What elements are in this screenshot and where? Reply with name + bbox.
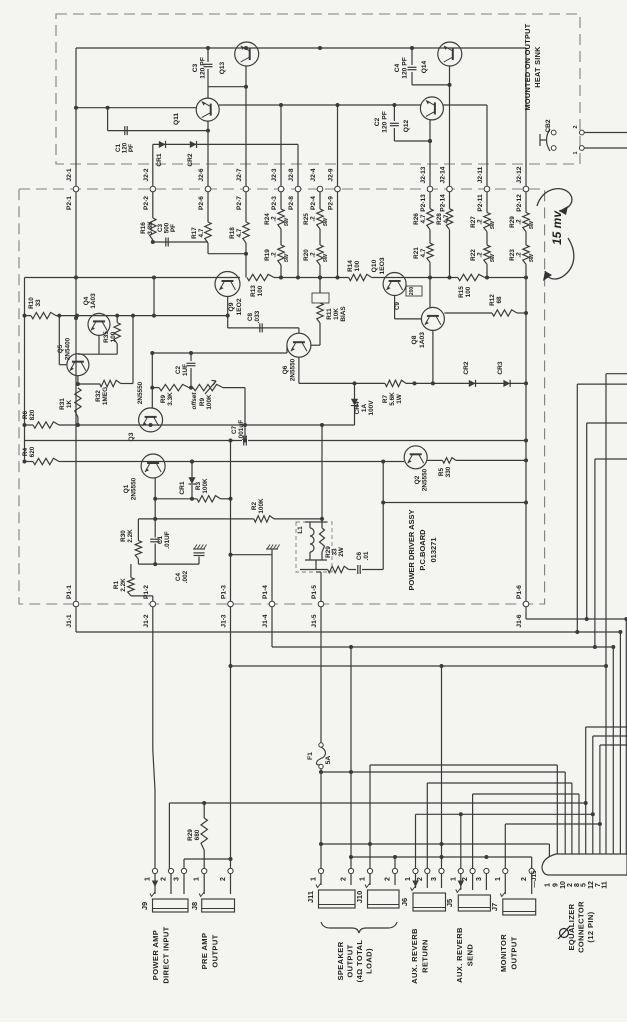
svg-text:CR3: CR3 xyxy=(497,361,504,375)
svg-text:Q13: Q13 xyxy=(219,61,226,74)
svg-text:R4: R4 xyxy=(22,447,29,456)
svg-text:R29: R29 xyxy=(187,829,194,841)
svg-text:BIAS: BIAS xyxy=(340,306,347,322)
svg-text:R26: R26 xyxy=(413,213,420,225)
svg-text:J6: J6 xyxy=(400,898,409,906)
svg-text:OUTPUT: OUTPUT xyxy=(346,944,355,977)
svg-text:CR4: CR4 xyxy=(354,401,361,414)
svg-text:620: 620 xyxy=(29,446,36,457)
svg-text:R1: R1 xyxy=(113,580,120,589)
svg-text:J2-12: J2-12 xyxy=(516,166,523,183)
svg-text:CR1: CR1 xyxy=(179,481,186,495)
svg-text:1EO3: 1EO3 xyxy=(379,257,386,274)
svg-text:Q4: Q4 xyxy=(83,296,90,305)
svg-text:offset: offset xyxy=(191,392,198,410)
svg-text:9: 9 xyxy=(552,883,559,887)
svg-text:J2-11: J2-11 xyxy=(477,166,484,183)
svg-text:4.7: 4.7 xyxy=(443,214,450,223)
svg-text:3.3K: 3.3K xyxy=(147,221,154,235)
svg-text:Q9: Q9 xyxy=(228,302,235,311)
svg-text:HEAT SINK: HEAT SINK xyxy=(533,46,542,88)
svg-text:P2-4: P2-4 xyxy=(310,196,317,210)
svg-text:1MEG: 1MEG xyxy=(102,387,109,405)
svg-text:CB2: CB2 xyxy=(545,119,552,133)
svg-text:J2-3: J2-3 xyxy=(271,168,278,182)
svg-text:.033: .033 xyxy=(254,310,261,323)
svg-text:R18: R18 xyxy=(229,227,236,239)
svg-text:P2-14: P2-14 xyxy=(440,194,447,212)
svg-text:J2-14: J2-14 xyxy=(440,166,447,183)
svg-text:J10: J10 xyxy=(355,891,364,904)
svg-text:1A03: 1A03 xyxy=(90,293,97,309)
svg-text:J1-1: J1-1 xyxy=(66,614,73,628)
svg-text:P2-1: P2-1 xyxy=(66,196,73,210)
svg-text:R30: R30 xyxy=(120,530,127,542)
svg-text:3: 3 xyxy=(476,877,483,881)
svg-text:J1-6: J1-6 xyxy=(516,614,523,628)
svg-text:2: 2 xyxy=(220,877,227,881)
svg-text:C4: C4 xyxy=(394,63,401,72)
svg-text:J2-6: J2-6 xyxy=(198,168,205,182)
svg-text:C9: C9 xyxy=(394,301,401,310)
svg-text:820: 820 xyxy=(29,409,36,420)
svg-text:J1-2: J1-2 xyxy=(143,614,150,628)
svg-text:Q12: Q12 xyxy=(403,119,410,132)
svg-text:P2-9: P2-9 xyxy=(328,196,335,210)
svg-text:R7: R7 xyxy=(382,394,389,403)
svg-text:1: 1 xyxy=(311,877,318,881)
svg-text:Q11: Q11 xyxy=(173,113,180,125)
svg-text:1: 1 xyxy=(145,877,152,881)
svg-text:5W: 5W xyxy=(323,217,329,226)
svg-text:1W: 1W xyxy=(396,393,403,404)
svg-text:P1-5: P1-5 xyxy=(311,585,318,599)
svg-text:P2-2: P2-2 xyxy=(143,196,150,210)
svg-text:J2-7: J2-7 xyxy=(236,168,243,182)
svg-text:.2: .2 xyxy=(271,252,278,258)
svg-text:—J15: —J15 xyxy=(531,870,538,888)
svg-text:R35: R35 xyxy=(103,331,110,343)
svg-text:100: 100 xyxy=(354,260,361,271)
svg-text:2: 2 xyxy=(341,877,348,881)
svg-text:P2-7: P2-7 xyxy=(236,196,243,210)
svg-text:L1: L1 xyxy=(297,526,304,534)
svg-text:1A03: 1A03 xyxy=(419,332,426,348)
svg-text:R14: R14 xyxy=(347,260,354,272)
svg-text:1A: 1A xyxy=(361,404,368,413)
svg-text:100: 100 xyxy=(257,285,264,296)
svg-text:R16: R16 xyxy=(140,222,147,234)
svg-text:C3: C3 xyxy=(192,63,199,72)
svg-text:P1-3: P1-3 xyxy=(221,585,228,599)
svg-text:2N5550: 2N5550 xyxy=(290,358,297,381)
svg-text:2N5550: 2N5550 xyxy=(137,381,144,404)
svg-text:2W: 2W xyxy=(338,546,345,557)
svg-text:5W: 5W xyxy=(323,253,329,262)
svg-text:.2: .2 xyxy=(516,219,523,225)
svg-text:680: 680 xyxy=(194,829,201,840)
svg-text:Q1: Q1 xyxy=(123,484,130,493)
svg-text:4.7: 4.7 xyxy=(420,214,427,223)
svg-text:AUX. REVERB: AUX. REVERB xyxy=(455,927,464,983)
svg-text:68: 68 xyxy=(496,296,503,304)
svg-text:.2: .2 xyxy=(271,216,278,222)
svg-text:Q14: Q14 xyxy=(421,60,428,73)
svg-text:4.7: 4.7 xyxy=(420,248,427,257)
svg-text:.001uF: .001uF xyxy=(238,420,245,440)
svg-text:1K: 1K xyxy=(66,400,73,409)
svg-text:5: 5 xyxy=(581,883,588,887)
svg-text:R17: R17 xyxy=(191,227,198,239)
svg-text:2: 2 xyxy=(385,877,392,881)
svg-text:11: 11 xyxy=(602,881,609,889)
svg-text:R13: R13 xyxy=(250,285,257,297)
svg-text:Q8: Q8 xyxy=(411,335,418,344)
svg-text:CR2: CR2 xyxy=(187,153,194,167)
svg-text:J9: J9 xyxy=(140,902,149,910)
svg-text:Q6: Q6 xyxy=(282,365,289,374)
svg-text:3.3K: 3.3K xyxy=(167,392,174,406)
svg-text:5W: 5W xyxy=(490,220,496,229)
svg-text:P2-3: P2-3 xyxy=(271,196,278,210)
svg-text:SEND: SEND xyxy=(466,944,475,967)
svg-text:100K: 100K xyxy=(202,478,209,494)
svg-text:R15: R15 xyxy=(458,286,465,298)
svg-text:.2: .2 xyxy=(310,252,317,258)
svg-text:330: 330 xyxy=(445,466,452,477)
svg-text:CR2: CR2 xyxy=(463,361,470,375)
svg-text:J2-4: J2-4 xyxy=(310,168,317,182)
svg-text:MOUNTED ON OUTPUT: MOUNTED ON OUTPUT xyxy=(523,23,532,110)
svg-text:(12 PIN): (12 PIN) xyxy=(586,911,595,942)
svg-text:2.2K: 2.2K xyxy=(120,578,127,592)
svg-text:5W: 5W xyxy=(529,220,535,229)
svg-text:1UF: 1UF xyxy=(182,364,189,376)
svg-text:OUTPUT: OUTPUT xyxy=(211,934,220,967)
svg-text:1EO2: 1EO2 xyxy=(236,298,243,315)
svg-text:J11: J11 xyxy=(306,891,315,903)
svg-text:R6: R6 xyxy=(22,410,29,419)
svg-text:Q5: Q5 xyxy=(57,344,64,353)
svg-text:C6: C6 xyxy=(356,551,363,560)
svg-text:.2: .2 xyxy=(516,252,523,258)
svg-text:J2-8: J2-8 xyxy=(288,168,295,182)
svg-text:2N5550: 2N5550 xyxy=(131,477,138,500)
svg-text:120 PF: 120 PF xyxy=(402,57,409,79)
svg-text:LOAD): LOAD) xyxy=(365,948,374,974)
svg-text:2: 2 xyxy=(161,877,168,881)
svg-text:MONITOR: MONITOR xyxy=(499,934,508,972)
svg-text:10K: 10K xyxy=(333,308,340,320)
svg-text:100V: 100V xyxy=(368,400,375,416)
svg-text:R9: R9 xyxy=(199,397,206,406)
svg-text:P2-13: P2-13 xyxy=(420,194,427,212)
svg-text:R31: R31 xyxy=(59,398,66,410)
svg-text:P2-12: P2-12 xyxy=(516,194,523,212)
svg-text:P1-1: P1-1 xyxy=(66,585,73,599)
svg-text:4.7: 4.7 xyxy=(236,228,243,237)
svg-text:AUX. REVERB: AUX. REVERB xyxy=(410,928,419,984)
svg-text:4.7: 4.7 xyxy=(198,228,205,237)
svg-text:1: 1 xyxy=(573,151,579,154)
svg-text:1: 1 xyxy=(360,877,367,881)
svg-text:PRE AMP: PRE AMP xyxy=(200,933,209,970)
svg-text:2: 2 xyxy=(417,877,424,881)
svg-text:2N5550: 2N5550 xyxy=(422,468,429,491)
svg-text:J1-5: J1-5 xyxy=(311,614,318,628)
svg-text:R10: R10 xyxy=(28,297,35,309)
svg-text:5A: 5A xyxy=(325,756,332,765)
svg-text:RETURN: RETURN xyxy=(421,939,430,973)
svg-text:R12: R12 xyxy=(489,294,496,306)
svg-text:2.2K: 2.2K xyxy=(127,529,134,543)
svg-text:100K: 100K xyxy=(206,394,213,410)
svg-text:C4: C4 xyxy=(175,572,182,581)
svg-text:R32: R32 xyxy=(95,390,102,402)
svg-text:.2: .2 xyxy=(477,219,484,225)
svg-text:P1-6: P1-6 xyxy=(516,585,523,599)
svg-text:R21: R21 xyxy=(413,247,420,259)
svg-text:3: 3 xyxy=(431,877,438,881)
svg-text:1: 1 xyxy=(495,877,502,881)
svg-text:2: 2 xyxy=(462,877,469,881)
svg-text:100: 100 xyxy=(110,331,117,342)
svg-text:R11: R11 xyxy=(326,308,333,320)
svg-text:P2-8: P2-8 xyxy=(288,196,295,210)
svg-text:2: 2 xyxy=(573,125,579,128)
svg-text:5W: 5W xyxy=(529,253,535,262)
svg-text:J8: J8 xyxy=(190,902,199,910)
svg-text:J1-3: J1-3 xyxy=(221,614,228,628)
svg-text:5W: 5W xyxy=(490,253,496,262)
svg-text:.2: .2 xyxy=(310,216,317,222)
svg-text:120 PF: 120 PF xyxy=(382,111,389,133)
svg-text:013271: 013271 xyxy=(429,537,438,562)
svg-text:POWER DRIVER ASSY: POWER DRIVER ASSY xyxy=(407,510,416,591)
svg-text:2: 2 xyxy=(567,883,574,887)
svg-text:C2: C2 xyxy=(374,117,381,126)
svg-text:P1-2: P1-2 xyxy=(143,585,150,599)
svg-text:2N5400: 2N5400 xyxy=(65,337,72,360)
svg-text:R28: R28 xyxy=(436,213,443,225)
svg-text:.01UF: .01UF xyxy=(164,531,171,548)
svg-text:15 mv: 15 mv xyxy=(550,210,564,245)
svg-text:.002: .002 xyxy=(182,570,189,583)
svg-text:OUTPUT: OUTPUT xyxy=(510,936,519,969)
svg-text:C1: C1 xyxy=(157,535,164,544)
svg-text:R5: R5 xyxy=(438,467,445,476)
svg-text:C2: C2 xyxy=(175,365,182,374)
svg-text:C8: C8 xyxy=(247,312,254,321)
svg-text:F1: F1 xyxy=(307,752,314,760)
svg-text:12: 12 xyxy=(588,881,595,889)
svg-text:5.6K: 5.6K xyxy=(389,392,396,406)
svg-text:Q2: Q2 xyxy=(414,475,421,484)
svg-text:33: 33 xyxy=(35,299,42,307)
svg-text:J2-13: J2-13 xyxy=(420,166,427,183)
svg-text:100K: 100K xyxy=(258,498,265,514)
svg-text:100: 100 xyxy=(465,286,472,297)
svg-text:120 PF: 120 PF xyxy=(200,57,207,79)
svg-text:Q10: Q10 xyxy=(371,259,378,272)
svg-text:J2-9: J2-9 xyxy=(328,168,335,182)
svg-text:200: 200 xyxy=(409,287,415,296)
svg-text:5W: 5W xyxy=(284,253,290,262)
svg-text:PF: PF xyxy=(170,224,177,232)
svg-text:PF: PF xyxy=(128,144,135,152)
svg-text:J2-2: J2-2 xyxy=(143,168,150,182)
svg-text:SPEAKER: SPEAKER xyxy=(336,941,345,980)
svg-text:5W: 5W xyxy=(284,217,290,226)
svg-text:R3: R3 xyxy=(195,481,202,490)
svg-text:POWER AMP: POWER AMP xyxy=(151,930,160,980)
svg-text:C7: C7 xyxy=(231,425,238,434)
svg-text:P1-4: P1-4 xyxy=(262,585,269,599)
svg-text:1: 1 xyxy=(405,877,412,881)
svg-text:J2-1: J2-1 xyxy=(66,168,73,182)
svg-text:P2-11: P2-11 xyxy=(477,194,484,212)
svg-text:1: 1 xyxy=(544,883,551,887)
svg-text:(4Ω TOTAL: (4Ω TOTAL xyxy=(355,940,364,983)
svg-text:P.C.BOARD: P.C.BOARD xyxy=(418,529,427,571)
svg-text:J5: J5 xyxy=(445,899,454,907)
svg-text:.2: .2 xyxy=(477,252,484,258)
svg-text:1: 1 xyxy=(450,877,457,881)
svg-text:CR1: CR1 xyxy=(156,153,163,167)
svg-text:J1-4: J1-4 xyxy=(262,614,269,628)
svg-text:CONNECTOR: CONNECTOR xyxy=(577,901,586,953)
svg-text:2: 2 xyxy=(521,877,528,881)
svg-text:P2-6: P2-6 xyxy=(198,196,205,210)
svg-text:R9: R9 xyxy=(160,394,167,403)
svg-text:3: 3 xyxy=(174,877,181,881)
svg-text:J7: J7 xyxy=(490,903,499,911)
svg-text:1: 1 xyxy=(194,877,201,881)
svg-text:R2: R2 xyxy=(251,501,258,510)
svg-text:.01: .01 xyxy=(363,551,370,560)
svg-text:DIRECT INPUT: DIRECT INPUT xyxy=(162,926,171,983)
